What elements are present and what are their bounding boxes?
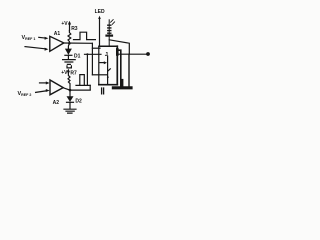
resistor R7 label <box>70 71 77 77</box>
node junction dot A1 out <box>68 42 71 45</box>
svg-text:D1: D1 <box>74 53 81 59</box>
wire LED left vertical with top arrowhead <box>98 16 101 19</box>
arrowhead A2 upper input <box>46 81 50 84</box>
label +V (top) <box>61 21 68 27</box>
wire jog into box top <box>92 47 100 49</box>
ground (under D1) <box>63 60 76 68</box>
pin blob on box right edge <box>116 49 119 54</box>
arrowhead A1 lower input <box>45 48 49 51</box>
op-amp A1 label <box>54 31 61 37</box>
wire bus B down <box>86 54 88 85</box>
power +V arrow (top) <box>69 23 71 31</box>
wire VREF1 to A1 upper input <box>39 36 46 39</box>
pin stubs under box <box>102 88 104 94</box>
arrowhead A2 lower input <box>46 89 50 92</box>
diode D1 <box>68 43 69 48</box>
diode D2 <box>69 90 71 96</box>
label D1 <box>74 53 81 59</box>
waveform pulse (upper) <box>74 32 96 39</box>
svg-text:R7: R7 <box>70 71 77 77</box>
thick stub above bar <box>121 80 123 87</box>
node VREF2 label <box>18 91 32 97</box>
wire output line <box>117 53 146 55</box>
power +V arrow (mid) <box>67 71 69 73</box>
wire LED node to output corner (sloped) <box>109 40 129 54</box>
wire A1 lower input <box>25 47 46 49</box>
node dot bus B top <box>86 53 88 55</box>
switch IC box bottom (thick) <box>99 84 118 86</box>
svg-text:R3: R3 <box>71 26 78 32</box>
wire inner corner down <box>117 50 121 87</box>
svg-text:A1: A1 <box>54 31 61 37</box>
svg-text:A2: A2 <box>53 100 60 106</box>
output terminal dot <box>146 52 150 56</box>
ground (under D2) <box>64 109 76 113</box>
wire bus A (A1 out corner down) <box>91 43 93 75</box>
switch IC box top <box>99 45 117 47</box>
wire VREF2 to A2 lower input <box>36 91 47 93</box>
node VREF1 label <box>22 35 36 41</box>
label D2 <box>75 98 82 104</box>
wire into box mid <box>85 53 102 55</box>
LED component chain <box>108 20 110 46</box>
arrowhead A1 upper input <box>45 37 49 40</box>
label +V (mid) <box>61 70 68 76</box>
wire A2 upper input <box>40 82 48 84</box>
svg-text:+V: +V <box>61 21 68 27</box>
wire A1 output <box>64 42 93 44</box>
switch IC box left <box>98 46 100 84</box>
switch IC box right (thick) <box>116 46 118 84</box>
LED label <box>95 9 105 15</box>
op-amp A1 <box>50 36 64 51</box>
op-amp A2 <box>50 80 63 95</box>
wire A2 output <box>63 88 90 90</box>
JFET channel <box>107 56 109 85</box>
waveform pulse (lower) <box>76 75 90 86</box>
LED emission arrows <box>111 20 115 25</box>
JFET label J <box>105 52 108 58</box>
thick bottom bar <box>113 86 131 89</box>
JFET gate arrow <box>99 62 104 64</box>
resistor R3 label <box>71 26 78 32</box>
node junction dot A2 out <box>69 89 72 92</box>
resistor R3 (zigzag column) <box>68 31 71 44</box>
svg-text:+V: +V <box>61 70 68 76</box>
wire source line into box <box>92 74 107 76</box>
svg-text:LED: LED <box>95 9 105 15</box>
resistor R7 (zigzag column) <box>68 73 70 90</box>
op-amp A2 label <box>53 100 60 106</box>
svg-text:D2: D2 <box>75 98 82 104</box>
wire right vertical down <box>128 54 130 86</box>
JFET dot <box>107 76 109 78</box>
LED body beads <box>108 25 111 33</box>
wire A2 out hook up to bus B <box>89 85 91 90</box>
LED cathode thick bar <box>107 34 113 36</box>
JFET emitter tick <box>108 69 111 71</box>
